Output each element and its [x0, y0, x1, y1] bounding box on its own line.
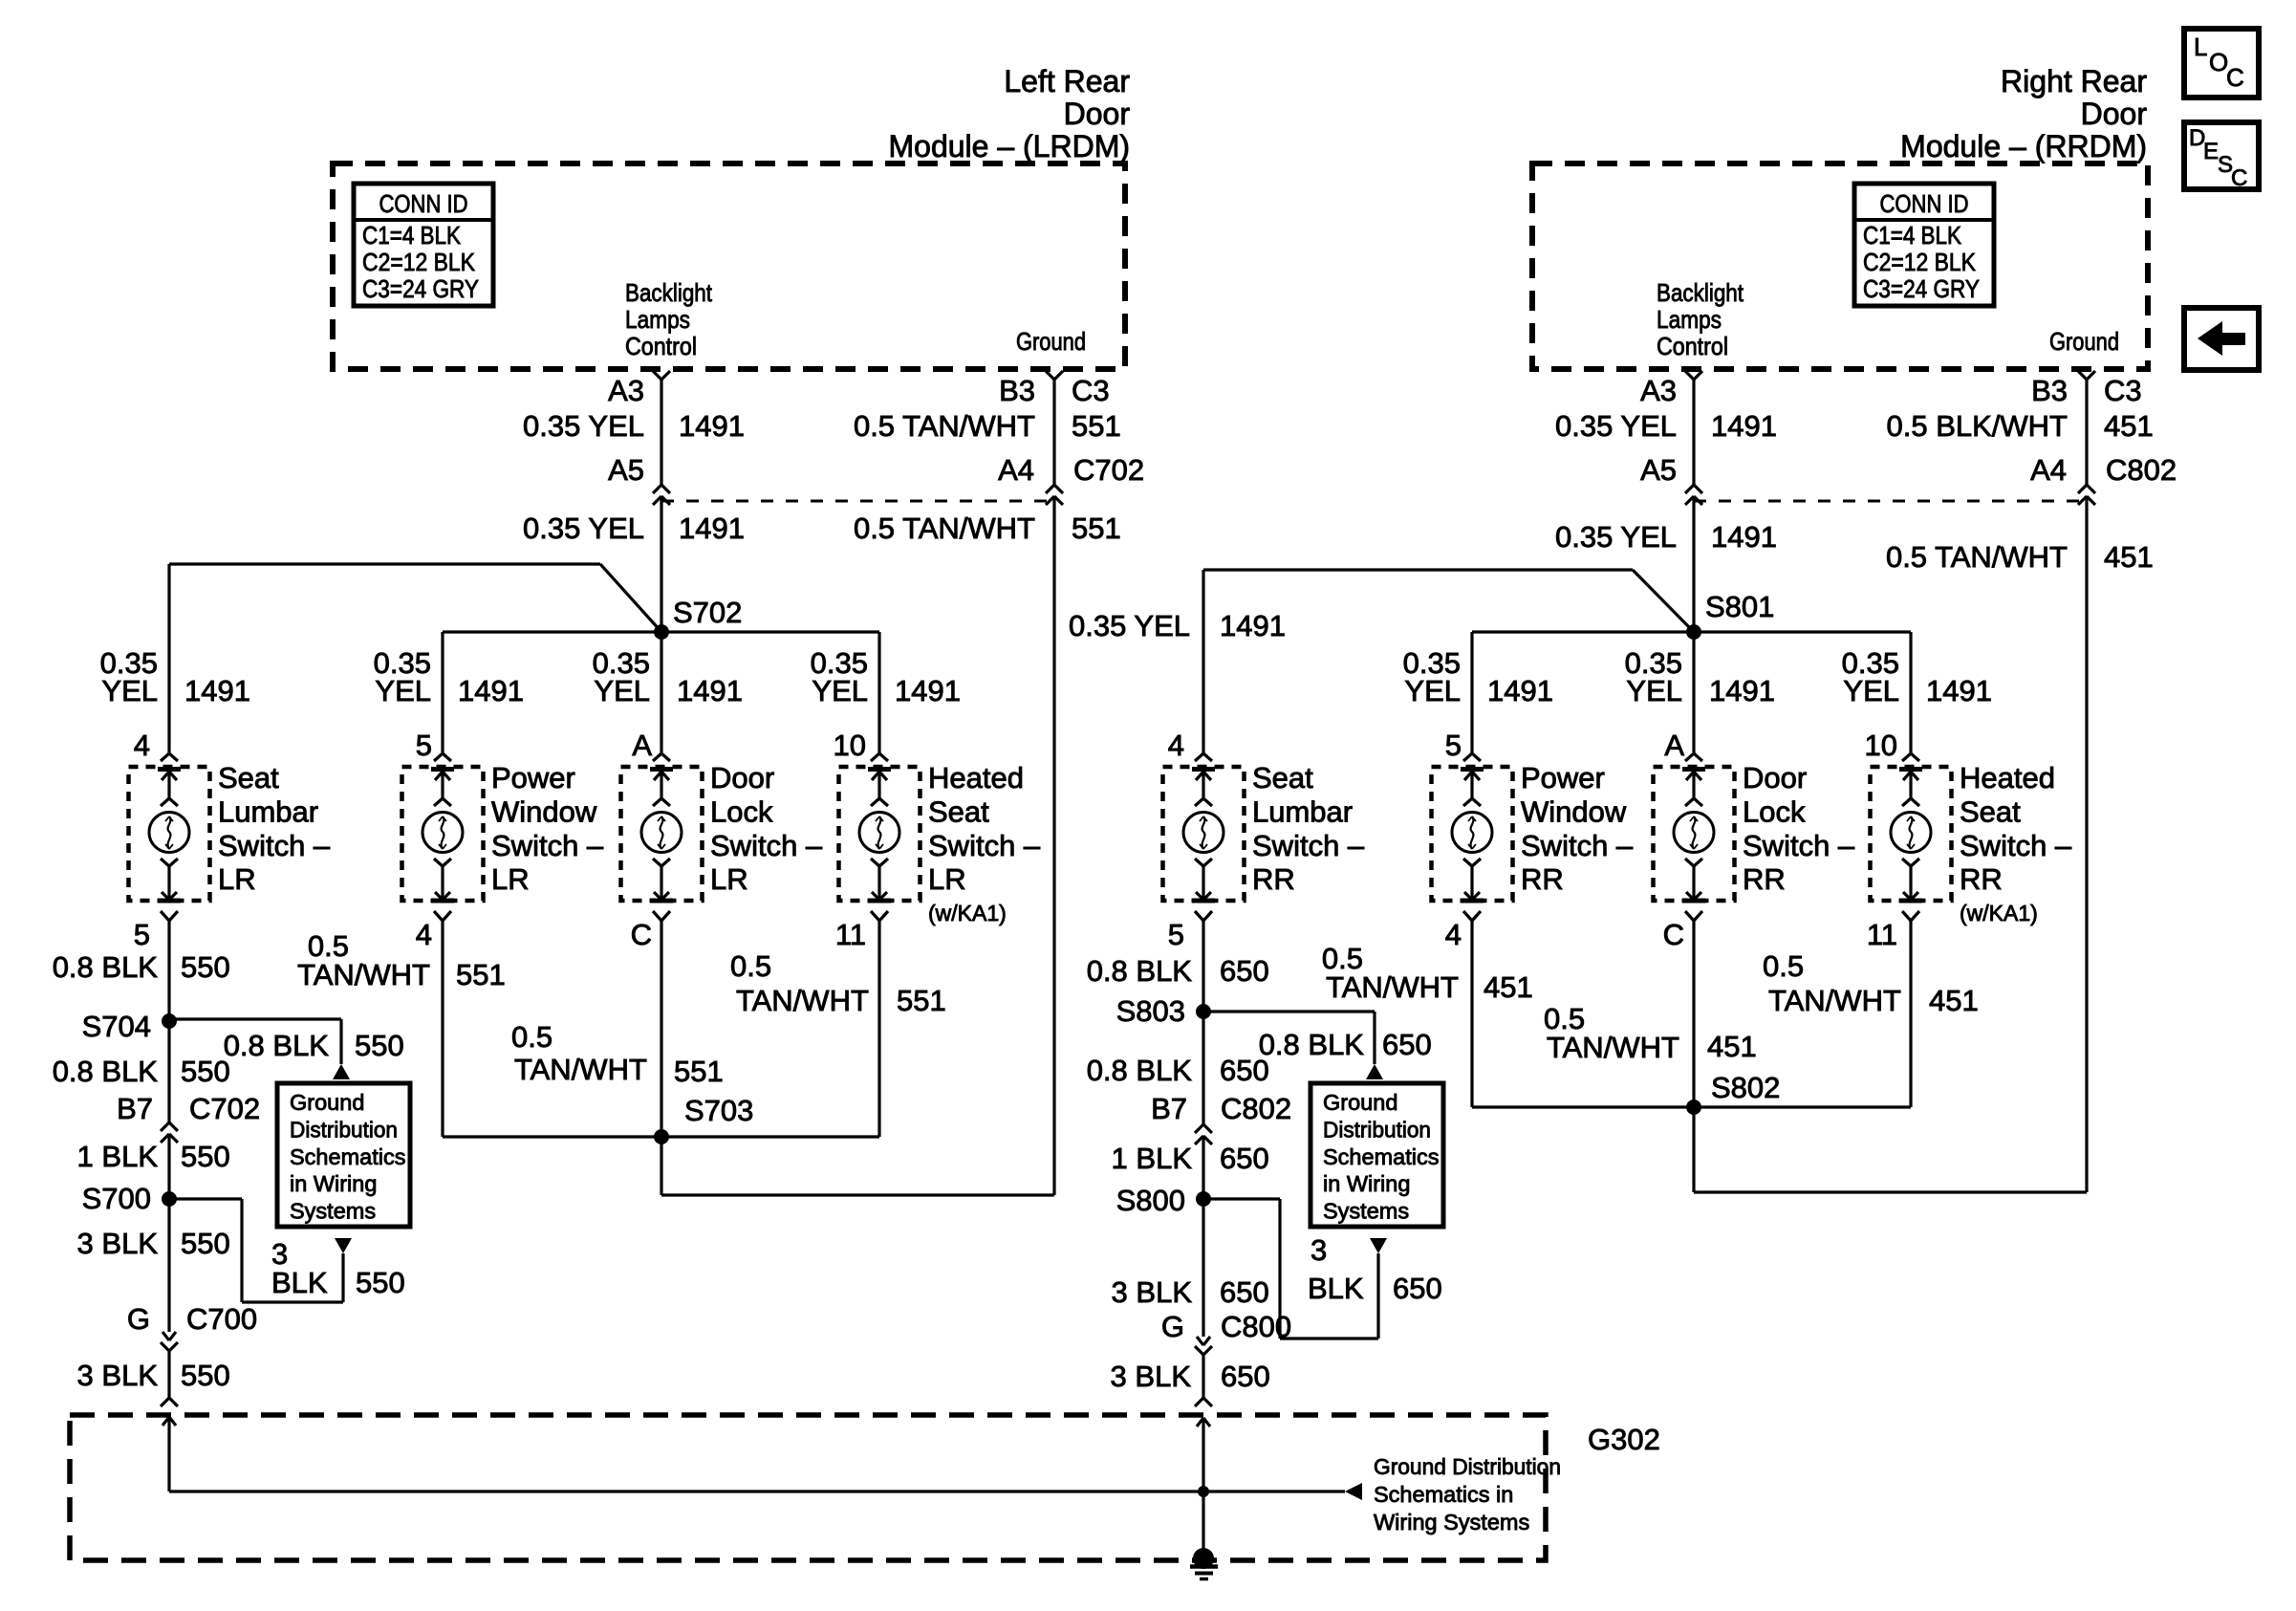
svg-text:Control: Control: [625, 332, 697, 360]
wire A4 LR ground return down: [1052, 496, 1055, 1195]
power window switch RR: squiggle inside circle: [1471, 816, 1474, 849]
svg-text:551: 551: [456, 958, 506, 991]
svg-text:YEL: YEL: [1404, 674, 1461, 708]
heated seat switch RR: internal top arrow: [1909, 772, 1912, 798]
svg-text:Lumbar: Lumbar: [1252, 795, 1353, 828]
wire 1491 drop to Heated Seat Switch LR: [877, 632, 880, 753]
svg-text:A5: A5: [1640, 453, 1677, 487]
svg-text:S702: S702: [673, 596, 742, 629]
power window switch RR: internal bottom arrow: [1470, 866, 1473, 900]
svg-text:0.5 TAN/WHT: 0.5 TAN/WHT: [854, 409, 1035, 443]
door lock switch LR: internal top arrow: [660, 772, 662, 798]
svg-text:RR: RR: [1960, 862, 2003, 896]
svg-text:Door: Door: [710, 761, 774, 795]
svg-text:1491: 1491: [1487, 674, 1553, 708]
svg-text:Lumbar: Lumbar: [218, 795, 318, 828]
power window switch LR: internal bottom arrow: [441, 866, 444, 900]
svg-text:C802: C802: [2106, 453, 2177, 487]
heated seat switch RR: dashed switch outline box: [1871, 767, 1952, 901]
seat lumbar switch LR: connector fork above box: [161, 753, 169, 761]
heated seat switch LR: dashed switch outline box: [839, 767, 921, 901]
svg-text:C: C: [2231, 165, 2247, 191]
svg-text:1491: 1491: [679, 409, 745, 443]
back-arrow icon: [2198, 321, 2222, 356]
svg-text:Systems: Systems: [290, 1199, 376, 1224]
svg-text:Ground: Ground: [290, 1090, 364, 1115]
wire 1491 drop to Door Lock Switch RR: [1692, 632, 1695, 753]
svg-text:YEL: YEL: [375, 674, 431, 708]
power window switch RR: bottom terminal bar: [1461, 899, 1484, 903]
svg-text:0.8 BLK: 0.8 BLK: [53, 950, 159, 984]
svg-text:550: 550: [356, 1266, 405, 1299]
svg-text:1491: 1491: [677, 674, 743, 708]
RRDM CONN ID header separator: [1854, 218, 1994, 222]
svg-text:Module – (RRDM): Module – (RRDM): [1900, 129, 2147, 163]
ground distribution reference box LR: [277, 1083, 410, 1227]
power window switch RR: internal bottom chevron: [1463, 859, 1472, 866]
heated seat switch RR: squiggle inside circle: [1910, 816, 1913, 849]
door lock switch RR: internal top arrow: [1692, 772, 1695, 798]
wire 3 BLK 550 from S700 down to C700: [167, 1199, 170, 1332]
svg-text:TAN/WHT: TAN/WHT: [1326, 970, 1459, 1004]
svg-text:G: G: [1161, 1310, 1184, 1343]
wire 1491 distribution bus (y661) RR: [1472, 630, 1911, 633]
svg-text:C800: C800: [1221, 1310, 1291, 1343]
splice S703 junction dot: [654, 1129, 669, 1144]
svg-text:10: 10: [1865, 729, 1897, 762]
splice S700 junction dot: [162, 1191, 177, 1207]
svg-text:5: 5: [1445, 729, 1462, 762]
seat lumbar switch LR: internal bottom chevron: [161, 859, 169, 866]
wire 3 BLK 550 from C700 to G302: [167, 1351, 170, 1398]
heated seat switch RR: top terminal bar: [1899, 767, 1922, 772]
door lock switch LR: internal top chevron: [653, 798, 661, 806]
connector C702 chevrons on A5 wire: [653, 485, 661, 493]
svg-text:A5: A5: [608, 453, 644, 487]
heated seat switch LR: internal top arrow: [877, 772, 880, 798]
heated seat switch RR: connector fork below box: [1902, 911, 1911, 921]
svg-text:Lamps: Lamps: [1657, 305, 1722, 334]
svg-text:S803: S803: [1116, 994, 1185, 1028]
svg-text:451: 451: [2104, 540, 2154, 574]
svg-text:451: 451: [1484, 970, 1533, 1004]
heated seat switch LR: internal bottom arrow: [877, 866, 880, 900]
heated seat switch RR: internal bottom arrow: [1909, 866, 1912, 900]
svg-text:1491: 1491: [895, 674, 961, 708]
door lock switch LR: internal bottom arrow: [660, 866, 662, 900]
pin B3/C3 fork (RRDM): [2078, 371, 2087, 380]
svg-text:CONN ID: CONN ID: [1880, 189, 1969, 218]
power window switch LR: rheostat circle: [422, 813, 463, 853]
door lock switch LR: squiggle inside circle: [661, 816, 663, 849]
door lock switch RR: connector fork below box: [1685, 911, 1694, 921]
svg-text:550: 550: [181, 1359, 230, 1392]
wire B3 RR (0.5 BLK/WHT 451) upper segment: [2085, 380, 2088, 485]
svg-text:B3: B3: [2031, 374, 2068, 407]
svg-text:C702: C702: [1073, 453, 1144, 487]
svg-text:451: 451: [1929, 984, 1979, 1017]
connector C702 chevrons on A4 wire: [1046, 485, 1054, 493]
svg-text:Ground: Ground: [2049, 327, 2119, 356]
svg-text:B3: B3: [999, 374, 1035, 407]
svg-text:Left Rear: Left Rear: [1004, 64, 1130, 98]
svg-text:Ground Distribution: Ground Distribution: [1374, 1454, 1561, 1479]
svg-text:TAN/WHT: TAN/WHT: [1547, 1031, 1679, 1064]
ground symbol G302: [1193, 1548, 1214, 1569]
svg-text:0.35 YEL: 0.35 YEL: [1555, 409, 1677, 443]
svg-text:0.5 TAN/WHT: 0.5 TAN/WHT: [854, 512, 1035, 545]
pin A3 fork (RRDM): [1685, 371, 1694, 380]
arrow into ground reference box (top, LR): [333, 1064, 350, 1079]
wire A5 RR down to splice S801: [1692, 496, 1695, 632]
door lock switch LR: connector fork below box: [653, 911, 661, 921]
svg-text:Seat: Seat: [928, 795, 989, 828]
door lock switch RR: top terminal bar: [1682, 767, 1705, 772]
svg-text:YEL: YEL: [594, 674, 650, 708]
svg-text:in Wiring: in Wiring: [290, 1171, 377, 1196]
svg-text:Backlight: Backlight: [1657, 278, 1744, 307]
LRDM CONN ID table box: [354, 184, 493, 306]
wire 1 BLK 650 from B7 to S800: [1202, 1136, 1204, 1199]
power window switch LR: dashed switch outline box: [402, 767, 484, 901]
svg-text:L: L: [2194, 33, 2207, 61]
wire 1491 branch to seat lumbar RR (horizontal): [1203, 568, 1633, 571]
splice S803 junction dot: [1196, 1004, 1211, 1019]
power window switch LR: top terminal bar: [431, 767, 454, 772]
seat lumbar switch LR: connector fork below box: [161, 911, 169, 921]
wire 1 BLK 550 from B7 to S700: [167, 1134, 170, 1199]
svg-text:C3: C3: [2104, 374, 2142, 407]
wire 1491 drop to Seat Lumbar Switch RR: [1202, 570, 1204, 753]
svg-text:C702: C702: [189, 1092, 260, 1125]
svg-text:Power: Power: [491, 761, 575, 795]
seat lumbar switch LR: internal top arrow: [167, 772, 170, 798]
G302 bus junction dot: [1198, 1486, 1209, 1497]
svg-text:Seat: Seat: [1960, 795, 2021, 828]
svg-text:0.8 BLK: 0.8 BLK: [1087, 1054, 1193, 1087]
svg-text:0.5 BLK/WHT: 0.5 BLK/WHT: [1887, 409, 2069, 443]
door lock switch LR: bottom terminal bar: [650, 899, 673, 903]
svg-text:Lock: Lock: [1743, 795, 1806, 828]
svg-text:650: 650: [1220, 1142, 1269, 1175]
svg-text:10: 10: [834, 729, 866, 762]
svg-text:BLK: BLK: [271, 1266, 328, 1299]
svg-text:TAN/WHT: TAN/WHT: [297, 958, 430, 991]
svg-text:5: 5: [1168, 918, 1184, 951]
LOC index box: [2184, 29, 2259, 98]
svg-text:3 BLK: 3 BLK: [1112, 1275, 1193, 1309]
back-arrow box: [2184, 308, 2259, 370]
svg-text:RR: RR: [1521, 862, 1564, 896]
svg-text:CONN ID: CONN ID: [379, 189, 468, 218]
svg-text:Distribution: Distribution: [290, 1117, 398, 1142]
svg-text:Systems: Systems: [1323, 1199, 1409, 1224]
power window switch LR: internal bottom chevron: [434, 859, 443, 866]
seat lumbar switch RR: internal top chevron: [1195, 798, 1203, 806]
connector C800 arrowhead and chevron: [1197, 1337, 1203, 1345]
wire 3 BLK 650 from C800 to G302: [1202, 1355, 1204, 1398]
svg-text:Lamps: Lamps: [625, 305, 690, 334]
svg-text:Seat: Seat: [218, 761, 279, 795]
wire 1491 drop to Heated Seat Switch RR: [1909, 632, 1912, 753]
svg-text:S801: S801: [1705, 590, 1774, 623]
svg-text:Switch –: Switch –: [1960, 829, 2072, 862]
power window switch RR: rheostat circle: [1452, 813, 1492, 853]
wire A3 LR (0.35 YEL 1491) upper segment: [660, 380, 662, 485]
svg-text:Switch –: Switch –: [1521, 829, 1634, 862]
svg-text:3 BLK: 3 BLK: [77, 1227, 159, 1260]
wire ground return to A4 C802 (bottom run): [1694, 1190, 2087, 1193]
svg-text:0.5: 0.5: [511, 1020, 552, 1054]
power window switch LR: squiggle inside circle: [442, 816, 444, 849]
svg-text:C: C: [2226, 63, 2244, 92]
svg-text:Door: Door: [1064, 97, 1131, 131]
svg-text:C2=12 BLK: C2=12 BLK: [1863, 248, 1977, 276]
svg-text:B7: B7: [117, 1092, 153, 1125]
door lock switch RR: rheostat circle: [1674, 813, 1714, 853]
door lock switch RR: internal bottom chevron: [1685, 859, 1694, 866]
wire 0.5 TAN/WHT 551 from power window LR pin 4: [441, 921, 444, 1137]
svg-text:Schematics in: Schematics in: [1374, 1482, 1513, 1507]
svg-text:A3: A3: [1640, 374, 1677, 407]
svg-text:550: 550: [181, 1227, 230, 1260]
seat lumbar switch RR: internal bottom arrow: [1202, 866, 1204, 900]
svg-text:A: A: [632, 729, 652, 762]
door lock switch LR: dashed switch outline box: [621, 767, 703, 901]
heated seat switch RR: bottom terminal bar: [1899, 899, 1922, 903]
door lock switch RR: connector fork above box: [1685, 753, 1694, 761]
svg-text:1491: 1491: [184, 674, 250, 708]
svg-text:YEL: YEL: [812, 674, 868, 708]
svg-text:E: E: [2203, 139, 2219, 164]
ground bus arrow to Ground Distribution Schematics: [1345, 1483, 1362, 1500]
heated seat switch RR: internal top chevron: [1902, 798, 1911, 806]
svg-text:Control: Control: [1657, 332, 1728, 360]
svg-text:11: 11: [1867, 918, 1897, 951]
svg-text:TAN/WHT: TAN/WHT: [736, 984, 869, 1017]
connector C702 (B7) chevrons: [161, 1122, 169, 1131]
wire 0.5 TAN/WHT 551 from heated seat LR pin 11: [877, 921, 880, 1137]
wire 3 BLK 650 branch from S800 to ground ref: [1203, 1197, 1280, 1200]
inline connector C702 dashed line: [661, 500, 1054, 503]
svg-text:0.35 YEL: 0.35 YEL: [523, 409, 644, 443]
svg-text:Right Rear: Right Rear: [2001, 64, 2147, 98]
seat lumbar switch RR: internal bottom chevron: [1195, 859, 1203, 866]
power window switch LR: connector fork below box: [434, 911, 443, 921]
svg-text:Window: Window: [1521, 795, 1627, 828]
power window switch RR: internal top arrow: [1470, 772, 1473, 798]
svg-text:551: 551: [1072, 512, 1121, 545]
svg-text:S800: S800: [1116, 1184, 1185, 1217]
svg-text:3: 3: [1310, 1233, 1327, 1267]
door lock switch LR: top terminal bar: [650, 767, 673, 772]
wire 1491 drop to Power Window Switch RR: [1470, 632, 1473, 753]
svg-text:C1=4 BLK: C1=4 BLK: [362, 221, 462, 250]
wire 0.5 TAN/WHT 551 from door lock LR pin C: [660, 921, 662, 1195]
svg-text:550: 550: [355, 1029, 404, 1062]
heated seat switch LR: internal bottom chevron: [871, 859, 879, 866]
splice S800 junction dot: [1196, 1191, 1211, 1207]
pin B3/C3 fork (LRDM): [1046, 371, 1054, 380]
svg-text:0.8 BLK: 0.8 BLK: [1259, 1028, 1365, 1061]
svg-text:4: 4: [134, 729, 150, 762]
wire from bus to ground symbol: [1202, 1491, 1204, 1558]
connector C802 chevrons on A5 wire: [1685, 485, 1694, 493]
wire 1491 drop to Power Window Switch LR: [441, 632, 444, 753]
svg-text:(w/KA1): (w/KA1): [1960, 901, 2038, 925]
seat lumbar switch LR: top terminal bar: [158, 767, 181, 772]
wire A5 LR down to splice S702: [660, 496, 662, 632]
arrow from ground reference box (bottom, LR): [335, 1238, 352, 1253]
G302 entry chevron (RR wire): [1195, 1398, 1203, 1406]
svg-text:0.35 YEL: 0.35 YEL: [1555, 520, 1677, 554]
LRDM CONN ID header separator: [354, 218, 493, 222]
svg-text:11: 11: [835, 918, 866, 951]
power window switch LR: internal top chevron: [434, 798, 443, 806]
svg-text:551: 551: [1072, 409, 1121, 443]
wire B3 LR (0.5 TAN/WHT 551) upper segment: [1052, 380, 1055, 485]
wire 0.5 TAN/WHT 451 from heated seat RR pin 11: [1909, 921, 1912, 1107]
heated seat switch LR: bottom terminal bar: [868, 899, 891, 903]
svg-text:0.5 TAN/WHT: 0.5 TAN/WHT: [1886, 540, 2068, 574]
pin A3 fork (LRDM): [653, 371, 661, 380]
svg-text:1 BLK: 1 BLK: [1112, 1142, 1193, 1175]
svg-text:551: 551: [674, 1055, 724, 1088]
G302 entry arrow (LR wire): [162, 1417, 169, 1426]
svg-text:A: A: [1664, 729, 1684, 762]
svg-text:1 BLK: 1 BLK: [77, 1140, 159, 1173]
seat lumbar switch LR: squiggle inside circle: [168, 816, 171, 849]
wire 1491 drop to Door Lock Switch LR: [660, 632, 662, 753]
svg-text:Door: Door: [2081, 97, 2148, 131]
svg-text:1491: 1491: [679, 512, 745, 545]
wire 0.5 TAN/WHT 451 from door lock RR pin C: [1692, 921, 1695, 1192]
svg-text:Heated: Heated: [928, 761, 1024, 795]
svg-text:0.5: 0.5: [730, 949, 771, 983]
svg-text:550: 550: [181, 1055, 230, 1088]
svg-text:C700: C700: [186, 1302, 257, 1336]
ground distribution reference box RR: [1310, 1083, 1443, 1227]
door lock switch LR: connector fork above box: [653, 753, 661, 761]
connector C802 chevrons on A4 wire: [2078, 485, 2087, 493]
svg-text:5: 5: [134, 918, 150, 951]
splice S702 junction dot: [654, 624, 669, 640]
svg-text:RR: RR: [1743, 862, 1786, 896]
svg-text:C: C: [631, 918, 652, 951]
svg-text:G302: G302: [1588, 1423, 1660, 1456]
svg-text:650: 650: [1220, 954, 1269, 988]
svg-text:A4: A4: [998, 453, 1034, 487]
svg-text:Schematics: Schematics: [290, 1144, 405, 1169]
svg-text:0.8 BLK: 0.8 BLK: [53, 1055, 159, 1088]
seat lumbar switch RR: squiggle inside circle: [1202, 816, 1205, 849]
power window switch RR: connector fork above box: [1463, 753, 1472, 761]
seat lumbar switch RR: bottom terminal bar: [1192, 899, 1215, 903]
svg-text:Door: Door: [1743, 761, 1807, 795]
DESC index box: [2184, 122, 2259, 189]
svg-text:650: 650: [1220, 1275, 1269, 1309]
svg-text:Switch –: Switch –: [1743, 829, 1855, 862]
power window switch RR: internal top chevron: [1463, 798, 1472, 806]
svg-text:Backlight: Backlight: [625, 278, 713, 307]
seat lumbar switch LR: internal top chevron: [161, 798, 169, 806]
svg-text:YEL: YEL: [1626, 674, 1682, 708]
splice S704 junction dot: [162, 1013, 177, 1029]
svg-text:S802: S802: [1711, 1071, 1780, 1104]
svg-text:5: 5: [416, 729, 432, 762]
svg-text:RR: RR: [1252, 862, 1295, 896]
svg-text:1491: 1491: [1711, 520, 1777, 554]
wire ground return to A4 C702 (bottom run): [661, 1193, 1054, 1196]
svg-text:Heated: Heated: [1960, 761, 2055, 795]
seat lumbar switch RR: top terminal bar: [1192, 767, 1215, 772]
wire 0.8 BLK 550 from seat lumbar LR pin 5: [167, 921, 170, 1122]
seat lumbar switch RR: internal top arrow: [1202, 772, 1204, 798]
svg-text:(w/KA1): (w/KA1): [928, 901, 1007, 925]
heated seat switch RR: rheostat circle: [1891, 813, 1931, 853]
svg-text:Distribution: Distribution: [1323, 1117, 1431, 1142]
svg-text:Power: Power: [1521, 761, 1605, 795]
wire 0.5 TAN/WHT 451 from power window RR pin 4: [1470, 921, 1473, 1107]
svg-text:1491: 1491: [1709, 674, 1775, 708]
svg-text:in Wiring: in Wiring: [1323, 1171, 1410, 1196]
svg-text:551: 551: [897, 984, 946, 1017]
svg-text:G: G: [127, 1302, 150, 1336]
heated seat switch LR: top terminal bar: [868, 767, 891, 772]
G302 entry arrow (RR wire): [1197, 1418, 1203, 1426]
svg-text:A4: A4: [2030, 453, 2067, 487]
svg-text:1491: 1491: [1220, 609, 1286, 642]
G302 entry chevron (LR wire): [161, 1398, 169, 1406]
svg-text:451: 451: [1707, 1030, 1757, 1063]
svg-text:S704: S704: [82, 1010, 151, 1043]
seat lumbar switch LR: dashed switch outline box: [129, 767, 210, 901]
svg-text:650: 650: [1382, 1028, 1432, 1061]
wire 3 BLK 550 branch from S700 to ground ref: [169, 1197, 242, 1200]
svg-text:550: 550: [181, 950, 230, 984]
svg-text:C: C: [1663, 918, 1684, 951]
svg-text:Switch –: Switch –: [928, 829, 1041, 862]
svg-text:451: 451: [2104, 409, 2154, 443]
ground bus wire inside G302: [169, 1490, 1345, 1492]
svg-text:LR: LR: [710, 862, 748, 896]
svg-text:S700: S700: [82, 1182, 151, 1215]
G302 dashed box: [70, 1415, 1546, 1560]
svg-text:Schematics: Schematics: [1323, 1144, 1439, 1169]
arrow from ground reference box (bottom, RR): [1370, 1238, 1387, 1253]
wire 1491 diagonal into S801: [1633, 570, 1694, 632]
heated seat switch LR: rheostat circle: [859, 813, 899, 853]
svg-text:Seat: Seat: [1252, 761, 1313, 795]
svg-text:3 BLK: 3 BLK: [1111, 1360, 1192, 1393]
door lock switch LR: rheostat circle: [641, 813, 682, 853]
svg-text:0.8 BLK: 0.8 BLK: [224, 1029, 330, 1062]
svg-text:C3: C3: [1072, 374, 1110, 407]
power window switch RR: dashed switch outline box: [1432, 767, 1513, 901]
door lock switch LR: internal bottom chevron: [653, 859, 661, 866]
svg-text:650: 650: [1221, 1360, 1270, 1393]
wire 0.8 BLK 550 branch from S704 to ground ref: [169, 1017, 341, 1020]
svg-text:Lock: Lock: [710, 795, 773, 828]
wire 3 BLK 650 from S800 down to C800: [1202, 1199, 1204, 1337]
svg-text:LR: LR: [218, 862, 256, 896]
svg-text:4: 4: [1445, 918, 1462, 951]
svg-text:A3: A3: [608, 374, 644, 407]
svg-text:1491: 1491: [1711, 409, 1777, 443]
wire A4 RR ground return down: [2085, 496, 2088, 1192]
door lock switch RR: internal bottom arrow: [1692, 866, 1695, 900]
svg-text:Switch –: Switch –: [710, 829, 823, 862]
